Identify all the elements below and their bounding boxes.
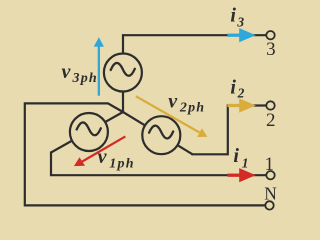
svg-text:1: 1	[242, 155, 249, 170]
source V1 circle	[70, 113, 108, 151]
current arrow i3 (blue)	[227, 28, 255, 42]
svg-text:i: i	[230, 5, 236, 27]
sine symbol V1	[77, 122, 101, 135]
label v1ph	[98, 146, 135, 172]
terminal 1	[266, 171, 274, 179]
voltage arrow v2ph (yellow, down-right)	[135, 95, 207, 137]
svg-text:v: v	[98, 146, 108, 168]
source V3 circle	[104, 54, 142, 92]
svg-text:v: v	[168, 91, 178, 113]
wire top: source 3 to terminal 3	[123, 35, 266, 91]
label v3ph	[62, 61, 98, 86]
terminal 2	[266, 101, 274, 109]
wire node to right source to corner	[123, 112, 193, 154]
voltage arrow v1ph (red, down-left)	[74, 135, 126, 166]
svg-text:2ph: 2ph	[179, 101, 205, 116]
svg-text:1ph: 1ph	[109, 156, 134, 171]
op: AC sources drawn over wires	[70, 54, 180, 155]
label i1	[233, 145, 248, 170]
wire node stem	[122, 91, 124, 112]
label i2	[230, 76, 244, 100]
svg-text:2: 2	[266, 110, 276, 131]
svg-text:1: 1	[265, 154, 275, 175]
svg-text:2: 2	[237, 86, 245, 101]
source V2 circle	[142, 116, 180, 154]
label v2ph	[168, 91, 205, 116]
terminal N	[265, 201, 273, 209]
svg-text:3ph: 3ph	[72, 71, 98, 86]
wire right source bottom: corner right, up, to terminal 2	[192, 106, 267, 155]
current arrow i2 (yellow)	[227, 98, 255, 112]
sine symbol V3	[111, 63, 135, 76]
wire neutral loop: node up-left, left rail, bottom rail to terminal N	[25, 103, 265, 205]
wire left source bottom: corner down then right to terminal 1	[51, 152, 266, 176]
svg-text:3: 3	[266, 39, 276, 60]
current arrow i1 (red)	[227, 168, 255, 182]
svg-text:3: 3	[236, 15, 244, 30]
terminal 3	[266, 31, 274, 39]
svg-text:v: v	[62, 61, 72, 83]
svg-text:i: i	[233, 145, 239, 167]
sine symbol V2	[149, 126, 173, 139]
svg-text:i: i	[230, 76, 236, 98]
label i3	[230, 5, 244, 30]
voltage arrow v3ph (blue, pointing up)	[94, 37, 104, 95]
wire node to left source to corner	[51, 112, 123, 153]
svg-text:N: N	[264, 183, 277, 203]
